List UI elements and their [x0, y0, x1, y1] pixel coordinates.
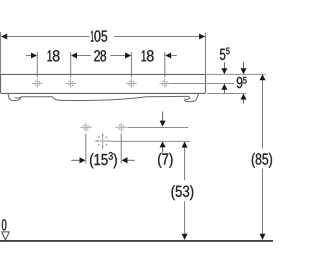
dimension 95 bottom arrow tail	[243, 99, 245, 103]
dimension 53 bottom arrowhead down	[182, 234, 188, 240]
dimension 55 bottom arrow tail	[224, 90, 226, 94]
dimension 85 bottom arrowhead down	[259, 234, 265, 240]
dimension 153 label	[90, 152, 117, 168]
basin under edge line left	[21, 96, 53, 98]
dimension 53 line upper segment	[184, 142, 186, 181]
dimension 7 label	[158, 153, 172, 168]
washbasin body outline	[1, 74, 206, 93]
dimension 18 left label	[48, 50, 60, 61]
dimension 7 top arrow tail	[162, 112, 164, 121]
datum triangle symbol	[2, 232, 10, 240]
dimension 153 right arrowhead	[122, 157, 128, 163]
dimension 55 top arrowhead down	[221, 68, 227, 74]
tap hole extension line 1	[36, 52, 38, 78]
datum zero label	[2, 219, 6, 230]
faucet hole crosshair D1	[80, 123, 91, 132]
dimension 95 top arrow tail	[243, 62, 245, 69]
dimension 105 line right segment	[114, 36, 205, 38]
tap hole crosshair 2	[65, 79, 76, 88]
basin under edge line right	[146, 95, 188, 97]
dimension 7 bottom arrowhead up	[160, 141, 166, 147]
tap hole center leader line B	[170, 83, 234, 85]
dimension 105 right arrowhead	[199, 33, 205, 39]
dimension 85 label	[252, 153, 272, 168]
dimension 28 label	[94, 50, 106, 61]
dimension 105 right extension line	[205, 33, 207, 74]
tap hole extension line 2	[70, 52, 72, 78]
dimension 85 line lower segment	[262, 169, 264, 240]
dimension 53 line lower segment	[184, 201, 186, 239]
dimension 55 label	[220, 49, 225, 60]
dimension 153 left arrowhead	[80, 157, 86, 163]
basin bowl bottom arc	[53, 97, 146, 101]
dimension 53 label	[172, 185, 194, 200]
drain hole leader line	[111, 140, 190, 142]
tap hole crosshair 1	[32, 79, 43, 88]
dimension 105 left extension line	[0, 32, 2, 74]
tap hole crosshair 4	[160, 79, 171, 88]
dimension 55 bottom arrowhead up	[221, 84, 227, 90]
dimension 105 label	[91, 30, 107, 41]
tap hole crosshair 3	[126, 79, 137, 88]
crosshair D2 leader line	[128, 127, 189, 129]
basin right foot tab	[184, 94, 198, 102]
dimension 55 top arrow tail	[224, 62, 226, 69]
dimension 95 bottom arrowhead up	[240, 94, 246, 100]
dimension 28 left arrowhead pointing left	[71, 52, 77, 58]
dimension 7 top arrowhead down	[160, 121, 166, 127]
basin bottom extension line C	[207, 93, 246, 95]
dimension 28 right arrowhead pointing right	[125, 52, 131, 58]
dimension 105 line left segment	[2, 36, 90, 38]
drain hole symbol dashed circle	[95, 133, 111, 149]
tap hole extension line 3	[130, 52, 132, 78]
dimension 95 label	[237, 77, 243, 88]
dimension 85 line upper segment	[262, 75, 264, 149]
rim top extension line A	[206, 73, 266, 75]
dimension 28 line left segment	[77, 55, 91, 57]
dimension 18 right label	[142, 50, 154, 61]
dimension 28 line right segment	[111, 55, 126, 57]
basin left foot tab	[8, 93, 21, 100]
dimension 153 left arrow tail	[71, 159, 79, 161]
faucet hole crosshair D2	[116, 123, 127, 132]
dimension 18 right: arrowhead pointing left	[165, 52, 171, 58]
tap hole extension line 4	[164, 52, 166, 78]
dimension 153 left extension line	[85, 134, 87, 164]
floor line	[0, 240, 273, 242]
dimension 105 left arrowhead	[1, 33, 7, 39]
dimension 7 bottom arrow tail	[162, 147, 164, 153]
dimension 18 right: outside arrow tail	[171, 55, 177, 57]
dimension 153 right arrow tail	[128, 159, 135, 161]
dimension 153 right extension line	[120, 134, 122, 164]
dimension 53 top arrowhead up	[182, 142, 188, 148]
dimension 85 top arrowhead up	[259, 74, 265, 80]
dimension 18 left: outside arrow tail	[26, 55, 32, 57]
dimension 95 top arrowhead down	[240, 68, 246, 74]
dimension 18 left: arrowhead pointing right	[31, 52, 37, 58]
